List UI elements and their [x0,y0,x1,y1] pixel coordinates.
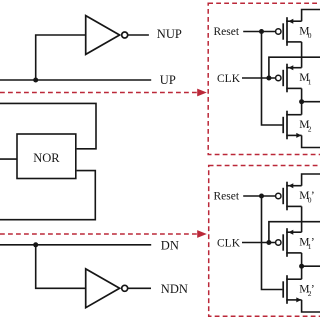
svg-text:Reset: Reset [214,26,240,38]
wire NOR feedback top [0,103,96,148]
wire M2' drain to output node [301,266,303,279]
NOR gate U2 [17,134,76,179]
label M1 [299,72,312,86]
svg-text:NDN: NDN [161,282,188,296]
wire NDN output [128,287,151,289]
svg-text:2: 2 [308,124,312,133]
junction Reset node [259,29,264,34]
transistor M2 (NMOS) [283,111,301,140]
wire M0' drain to M1' source [301,206,303,232]
wire M0' source to top rail [302,174,320,186]
wire output node right [302,265,320,267]
wire NOR input left [0,158,17,160]
wire M2 source down [302,135,320,147]
wire M0 drain to M1 source [301,42,303,68]
transistor M1 (PMOS) [276,64,302,93]
label Reset (bottom box) [214,191,240,203]
label NDN [161,282,188,296]
label Reset (top box) [214,26,240,38]
inverter NDN driver [86,269,128,308]
label M2' [299,284,315,298]
label UP [160,73,176,87]
wire NOR feedback bottom [0,171,95,220]
dashed arrow UP to pump-up branch [0,89,207,97]
svg-text:’: ’ [311,237,315,249]
label DN [161,239,179,253]
wire UP to inverter input [36,35,85,80]
wire M1' drain to output node [301,253,303,266]
dashed box: UP pump branch [208,3,320,154]
junction CLK node [266,240,271,245]
junction DN node [33,242,38,247]
wire Reset [243,195,276,197]
wire DN to inverter input [36,245,85,288]
junction CLK node [266,76,271,81]
svg-text:DN: DN [161,239,179,253]
junction UP node [33,78,38,83]
svg-text:’: ’ [311,284,315,296]
svg-text:1: 1 [308,77,312,86]
wire Reset to M2' gate [262,196,283,290]
svg-text:0: 0 [308,31,312,40]
wire output node right [302,101,320,103]
inverter NUP driver [86,16,128,55]
junction output node [299,99,304,104]
wire CLK to internal rail [269,57,320,78]
wire M2 drain to output node [301,102,303,115]
svg-text:CLK: CLK [217,73,241,85]
transistor M0' (PMOS) [276,182,302,211]
wire M1 drain to output node [301,88,303,101]
svg-text:UP: UP [160,73,176,87]
wire M2' source down [302,300,320,312]
wire NUP output [128,34,149,36]
svg-text:NOR: NOR [33,151,60,165]
wire UP [0,79,151,81]
wire CLK [242,242,276,244]
label M2 [299,119,312,133]
svg-text:’: ’ [311,190,315,202]
dashed box: DN pump branch [209,166,320,317]
dashed arrow DN to pump-down branch [0,230,207,238]
label M1' [299,237,315,251]
label CLK (bottom box) [217,238,241,250]
wire Reset [243,31,276,33]
svg-text:Reset: Reset [214,191,240,203]
label CLK (top box) [217,73,241,85]
wire CLK [242,77,276,79]
junction Reset node [259,194,264,199]
wire Reset to M2 gate [262,32,283,126]
transistor M0 (PMOS) [276,17,302,46]
label NUP [157,27,182,41]
transistor M2' (NMOS) [283,275,301,304]
junction output node [299,264,304,269]
svg-text:NUP: NUP [157,27,182,41]
label M0' [299,190,315,204]
wire M0 source to top rail [302,10,320,22]
wire DN [0,244,151,246]
label M0 [299,26,312,40]
svg-text:CLK: CLK [217,238,241,250]
transistor M1' (PMOS) [276,228,302,257]
wire CLK to internal rail [269,222,320,243]
